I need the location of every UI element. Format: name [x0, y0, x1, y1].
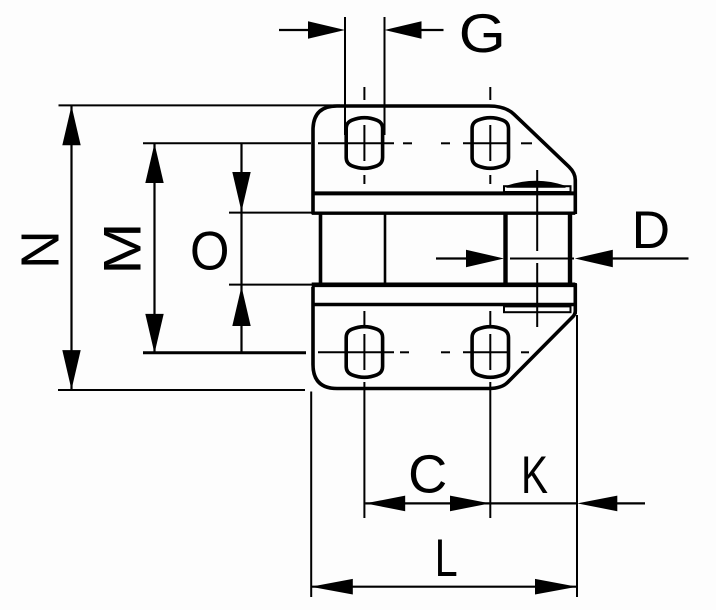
- middle bottom thick edge / band2 top: [312, 282, 576, 287]
- centerline hole bottom-left vertical / C left extension: [363, 311, 365, 518]
- svg-text:D: D: [632, 201, 671, 260]
- band1 top edge: [312, 191, 576, 195]
- O bottom arrow (outside, pointing up): [232, 287, 250, 327]
- band1 bottom edge / middle top edge: [312, 211, 576, 214]
- L dimension line: [311, 586, 577, 588]
- N bottom extension line: [58, 389, 305, 391]
- top plate outline: [313, 106, 575, 214]
- hole top-right: [472, 118, 508, 169]
- hole bottom-right: [472, 327, 508, 378]
- svg-text:C: C: [408, 445, 447, 505]
- M bottom arrow: [145, 314, 163, 354]
- svg-text:K: K: [521, 446, 548, 506]
- N top arrow: [62, 106, 80, 146]
- bottom pin plate thin rect: [504, 306, 571, 312]
- top dome (pin head): [507, 182, 566, 187]
- M top arrow: [145, 144, 163, 184]
- O top arrow (outside, pointing down): [232, 172, 250, 212]
- G dimension left extension line: [344, 17, 346, 135]
- svg-text:M: M: [94, 222, 152, 274]
- svg-text:N: N: [11, 230, 70, 269]
- centerline top holes horizontal / M top extension: [143, 142, 532, 144]
- middle waist left edge: [319, 213, 323, 285]
- D right arrow: [575, 250, 689, 268]
- top pin plate thin rect: [504, 186, 571, 192]
- svg-text:G: G: [459, 3, 506, 64]
- hole bottom-left: [346, 327, 382, 378]
- G right arrow: [385, 21, 444, 39]
- L right arrow (inside, pointing right): [535, 579, 577, 595]
- centerline bottom holes horizontal / M bottom extension: [143, 351, 529, 353]
- N bottom arrow: [62, 350, 80, 390]
- L left extension line: [310, 392, 312, 598]
- middle inner vertical: [384, 213, 387, 285]
- K/L right extension line: [576, 315, 578, 597]
- O dimension line: [240, 144, 242, 353]
- C right arrow (inside, pointing right): [450, 496, 490, 512]
- centerline pin horizontal: [510, 258, 574, 260]
- C left arrow (inside, pointing left): [365, 496, 405, 512]
- C/K dimension line: [365, 502, 577, 504]
- pin block left edge: [503, 213, 507, 285]
- pin block right edge: [568, 213, 572, 285]
- centerline hole top-right vertical: [489, 87, 491, 184]
- M bottom extension line: [143, 352, 306, 354]
- N dimension line: [70, 106, 72, 390]
- O bottom extension line: [229, 284, 316, 286]
- N top extension line: [59, 104, 341, 106]
- hole top-left: [346, 118, 382, 169]
- centerline pin vertical: [536, 170, 538, 327]
- G left arrow: [279, 21, 345, 39]
- M dimension line: [153, 144, 155, 354]
- G dimension right extension line: [384, 17, 386, 135]
- K right arrow (outside, pointing left): [577, 496, 645, 512]
- centerline hole bottom-right vertical / C right extension: [489, 311, 491, 518]
- bottom plate outline: [313, 284, 575, 389]
- centerline hole top-left vertical: [363, 87, 365, 184]
- band2 bottom edge: [312, 303, 576, 307]
- D left arrow: [436, 250, 504, 268]
- band2 right edge: [574, 283, 577, 314]
- L left arrow (inside, pointing left): [311, 579, 353, 595]
- svg-text:O: O: [190, 221, 229, 282]
- svg-text:L: L: [435, 529, 458, 588]
- O top extension line: [229, 212, 316, 214]
